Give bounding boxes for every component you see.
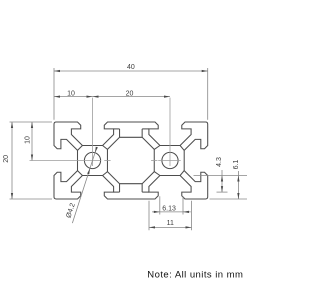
dim 20 left extension top [10, 121, 53, 123]
svg-text:Note: All units in mm: Note: All units in mm [147, 269, 243, 280]
top bar underside segments [114, 128, 120, 130]
dim 20 line (top) [93, 96, 171, 98]
svg-text:4.3: 4.3 [216, 157, 223, 167]
core corner chamfers cell 2 [180, 146, 184, 151]
dim 10 left line [31, 122, 33, 161]
dim 11 extension right [191, 201, 193, 230]
bottom T-stem left wall [119, 184, 121, 192]
dim 6.13 extension right [182, 196, 184, 214]
svg-text:6.1: 6.1 [233, 160, 240, 170]
dim 40 extension line left [53, 68, 55, 120]
top T-stem right wall [141, 129, 143, 137]
dim 40 line [54, 70, 208, 72]
dim 4.3/6.1 extension line top [194, 175, 248, 177]
dim 20 left extension bottom [10, 198, 53, 200]
dim 4.3 line [221, 170, 223, 192]
svg-text:20: 20 [126, 90, 134, 97]
dim 4.3 extension line bottom [217, 191, 228, 193]
leader line Ø4.2 [72, 147, 96, 223]
dim 10 line (top) [54, 96, 93, 98]
dim 6.13 extension left [159, 196, 161, 214]
centerline hole 2 horizontal ticks [158, 160, 181, 162]
center hole cell 1 (Ø4.2) [84, 152, 100, 168]
centerline octagon ticks [104, 160, 110, 162]
dim 20 left line [11, 122, 13, 199]
dim 6.1 extension line bottom [210, 198, 248, 200]
svg-text:40: 40 [127, 64, 135, 71]
svg-text:10: 10 [25, 136, 32, 144]
svg-text:20: 20 [3, 155, 10, 163]
bottom T-stem right wall [141, 184, 143, 192]
svg-text:11: 11 [167, 220, 174, 227]
dim 6.1 line [237, 171, 239, 199]
center hole cell 2 (Ø4.2) [162, 152, 178, 168]
centerline hole 1 horizontal [30, 160, 101, 162]
top T-stem left wall [119, 129, 121, 137]
dim 11 extension left [148, 201, 150, 230]
core corner chamfers cell 1 [78, 146, 83, 151]
bottom bar underside segments [114, 191, 120, 193]
centerline hole 1 vertical [92, 98, 94, 166]
dim 40 extension line right [207, 68, 209, 120]
dim 11 line [149, 226, 192, 228]
extrusion profile outer outline with slot openings [54, 122, 208, 199]
center octagonal cavity [107, 137, 154, 183]
dim 6.13 line [152, 211, 191, 213]
svg-text:10: 10 [67, 90, 75, 97]
centerline hole 2 vertical [169, 98, 171, 166]
svg-text:6.13: 6.13 [162, 205, 176, 212]
